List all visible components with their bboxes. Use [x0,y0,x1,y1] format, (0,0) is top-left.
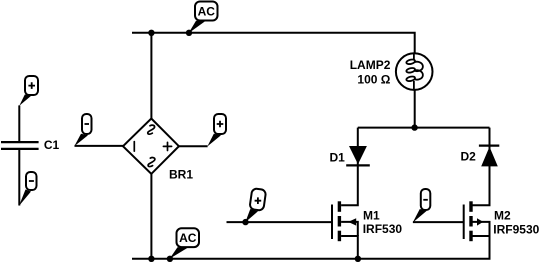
svg-text:D1: D1 [330,151,346,165]
svg-text:C1: C1 [44,138,60,152]
svg-text:LAMP2: LAMP2 [350,58,391,72]
svg-text:AC: AC [179,231,197,245]
svg-text:M1: M1 [363,209,380,223]
svg-text:100 Ω: 100 Ω [357,72,390,86]
svg-text:D2: D2 [461,149,477,163]
svg-text:IRF9530: IRF9530 [493,223,539,237]
svg-text:BR1: BR1 [169,167,193,181]
svg-text:M2: M2 [494,209,511,223]
svg-text:IRF530: IRF530 [363,222,403,236]
svg-text:AC: AC [198,5,216,19]
